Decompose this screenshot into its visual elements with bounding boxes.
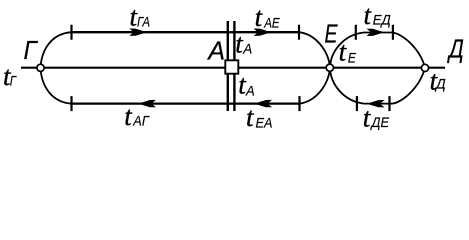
svg-text:АЕ: АЕ	[263, 14, 280, 30]
station А bar right	[233, 21, 235, 111]
wire curve bottom line to Е	[300, 68, 331, 104]
wire curve top line to Е	[299, 32, 330, 67]
svg-text:ГА: ГА	[137, 13, 150, 29]
node Е	[326, 64, 333, 71]
arrow t_ГА right	[129, 29, 147, 36]
tick ДЕ arc left	[356, 96, 358, 111]
wire curve Г to bottom line	[41, 68, 72, 104]
arrow t_ЕА left	[254, 100, 272, 107]
station А bar left	[227, 21, 229, 111]
svg-text:А: А	[206, 36, 225, 66]
tick ЕД arc right	[392, 25, 394, 40]
wire middle Г-Д	[21, 67, 445, 69]
svg-text:А: А	[242, 40, 252, 56]
wire arc Д-Е bottom	[330, 68, 425, 104]
arrow t_АГ left	[138, 100, 156, 107]
tick ДЕ arc right	[388, 96, 390, 111]
tick bottom left	[70, 96, 72, 111]
node Д	[421, 64, 428, 71]
svg-text:Е: Е	[325, 18, 338, 48]
tick top left	[70, 25, 72, 40]
svg-text:ЕД: ЕД	[373, 12, 391, 28]
node Г	[37, 64, 44, 71]
svg-text:Е: Е	[348, 50, 357, 66]
arrow t_ЕД right	[367, 29, 385, 36]
tick top right	[298, 25, 300, 40]
arrow t_АЕ right	[254, 29, 272, 36]
svg-text:Г: Г	[24, 35, 39, 65]
svg-text:ЕА: ЕА	[256, 114, 273, 130]
svg-text:АГ: АГ	[132, 112, 150, 128]
station А square	[225, 60, 238, 73]
wire arc Е-Д top	[330, 33, 425, 68]
svg-text:А: А	[245, 83, 255, 99]
wire top Г-А-Е	[72, 31, 300, 33]
wire bottom Г-А-Е	[72, 102, 300, 104]
svg-text:Д: Д	[434, 76, 446, 92]
tick bottom right	[298, 96, 300, 111]
svg-text:Д: Д	[447, 34, 464, 64]
tick ЕД arc left	[355, 25, 357, 40]
svg-text:ДЕ: ДЕ	[370, 114, 390, 130]
arrow t_ДЕ left	[367, 100, 385, 107]
wire curve Г to top line	[41, 32, 72, 68]
